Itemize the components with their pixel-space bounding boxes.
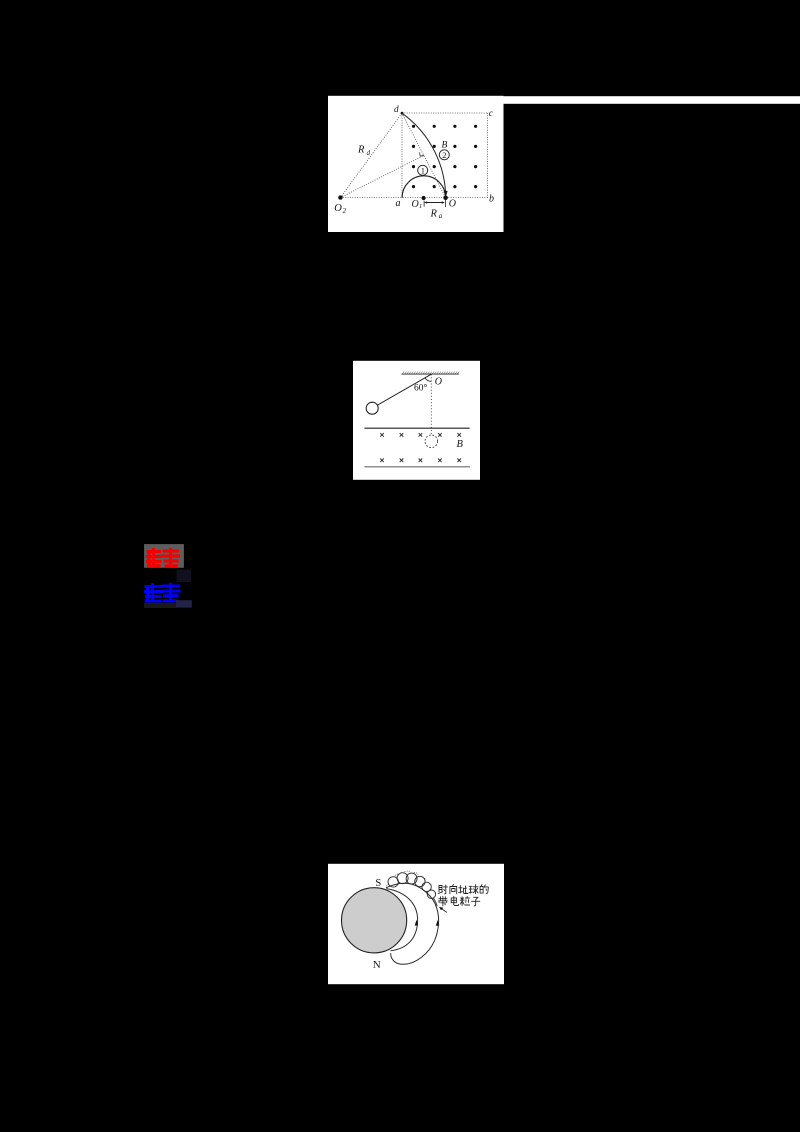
svg-text:O: O [435, 377, 442, 388]
dotted boundary right edge c-b [487, 113, 489, 198]
cross row2 col3 [419, 459, 423, 463]
field dot r2c3 [453, 145, 456, 148]
angle arc at O [425, 378, 431, 382]
field dot r3c4 [474, 165, 477, 168]
arc path 2 from d to O [402, 113, 446, 191]
svg-text:S: S [375, 877, 381, 889]
pendulum ball [366, 402, 378, 414]
dotted bottom line O2-b [340, 197, 487, 199]
field dot r1c3 [453, 125, 456, 128]
outer field line loop [386, 883, 439, 964]
svg-text:B: B [442, 141, 448, 151]
figure 2 white panel [353, 361, 480, 480]
field dot r1c2 [433, 125, 436, 128]
circled 1 [418, 165, 428, 175]
tick below O1 [423, 201, 425, 207]
cross row2 col4 [438, 459, 442, 463]
hanzi di 地 [459, 886, 468, 894]
dashed circle ball position in field [425, 435, 438, 448]
field dot r3c3 [453, 165, 456, 168]
vertical dotted line from O [430, 374, 432, 435]
hanzi zi 子 [472, 897, 480, 906]
svg-text:R: R [357, 145, 365, 156]
svg-text:b: b [489, 194, 494, 205]
hanzi xiang 向 [450, 885, 457, 894]
hanzi qiu 球 [469, 885, 478, 894]
field dot r4c2 [433, 185, 436, 188]
svg-text:a: a [439, 212, 443, 220]
arrowhead at O on arc 2 [444, 191, 448, 197]
hanzi de 的 [480, 885, 488, 894]
arrow on inner loop [415, 920, 419, 926]
field dot r3c2 [433, 165, 436, 168]
helix dotted back arcs [386, 871, 431, 887]
svg-text:O: O [449, 199, 456, 210]
svg-text:O: O [412, 199, 419, 210]
svg-text:d: d [367, 149, 371, 157]
cross row1 col2 [400, 433, 404, 437]
double arrow Ra [424, 201, 445, 204]
svg-text:1: 1 [421, 165, 425, 175]
cross row2 col2 [400, 459, 404, 463]
svg-text:2: 2 [343, 207, 347, 215]
navy rect right of blue label [176, 600, 192, 607]
semicircle path 1 [402, 176, 446, 198]
field dot r2c4 [474, 145, 477, 148]
svg-text:a: a [396, 198, 401, 209]
inner field line loop [387, 889, 418, 951]
dotted line O2 to chord midpoint [340, 155, 423, 197]
cross row1 col3 [419, 433, 423, 437]
charged particle helix [388, 873, 437, 907]
svg-text:2: 2 [442, 150, 446, 160]
field dot r2c2 [433, 145, 436, 148]
field dot r4c1 [412, 185, 415, 188]
figure 3 white panel [328, 864, 504, 984]
point O dot [443, 196, 448, 201]
cross row2 col5 [457, 459, 461, 463]
circled 2 [439, 150, 449, 160]
field dot r2c1 [412, 145, 415, 148]
hanzi dian 电 [451, 896, 458, 905]
field dot r1c1 [412, 125, 415, 128]
dotted vertical line d-a [401, 113, 403, 198]
point O1 dot [422, 196, 426, 200]
figure 1 white top strip [503, 96, 800, 104]
svg-text:1: 1 [419, 203, 422, 210]
point O2 dot [338, 195, 342, 199]
right-angle mark at chord midpoint [420, 152, 425, 156]
cross row1 col1 [380, 433, 384, 437]
figure 1 white panel [328, 96, 504, 232]
field dot r4c4 [474, 185, 477, 188]
svg-text:N: N [373, 959, 381, 971]
point d dot [401, 112, 404, 115]
hanzi she 射 [438, 885, 447, 894]
field region bottom boundary [364, 466, 470, 468]
ceiling line [402, 373, 459, 375]
svg-text:d: d [394, 104, 399, 114]
faint dark mark right of answer box [177, 570, 192, 583]
svg-text:R: R [430, 209, 438, 220]
svg-text:B: B [457, 439, 464, 450]
hanzi dai 带 [439, 897, 448, 906]
dotted line O2-d (radius Rd) [340, 113, 402, 197]
dotted chord d-O [402, 113, 446, 197]
field dot r1c4 [474, 125, 477, 128]
pointer arrow to helix [439, 907, 447, 913]
gray answer box [144, 544, 184, 568]
hanzi li 粒 [460, 897, 469, 906]
cross row2 col1 [380, 459, 384, 463]
field dot r4c3 [453, 185, 456, 188]
red label text [147, 550, 179, 566]
field region top boundary [364, 427, 469, 429]
dark strip under blue label [144, 603, 176, 608]
blue label text [146, 585, 180, 602]
ceiling hatching [402, 372, 459, 374]
svg-text:60°: 60° [414, 383, 428, 394]
cross row1 col4 [438, 433, 442, 437]
earth disc [342, 888, 407, 953]
dotted boundary top edge d-c [402, 112, 488, 114]
svg-text:O: O [334, 203, 342, 214]
field dot r3c1 [412, 165, 415, 168]
tick below O [444, 200, 446, 207]
pendulum string [377, 374, 431, 405]
arrow on outer loop [436, 920, 440, 926]
cross row1 col5 [457, 433, 461, 437]
